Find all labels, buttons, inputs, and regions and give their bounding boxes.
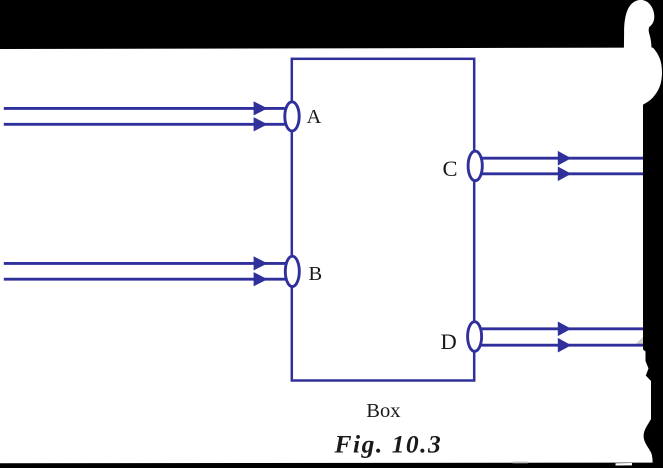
gray smudge above bottom bar bbox=[513, 462, 529, 464]
terminal D bbox=[468, 322, 482, 352]
terminal C bbox=[468, 151, 482, 181]
arrowhead A lower bbox=[254, 117, 268, 131]
box outline bbox=[292, 59, 474, 381]
right black scan strip bbox=[643, 46, 663, 463]
arrowhead D lower bbox=[558, 338, 571, 353]
arrowhead C lower bbox=[558, 167, 571, 182]
wire A lower bbox=[4, 123, 288, 126]
arrowhead A upper bbox=[254, 101, 268, 115]
wire C lower bbox=[478, 172, 643, 175]
wire A upper bbox=[4, 107, 288, 110]
svg-text:Box: Box bbox=[366, 400, 400, 422]
wire B upper bbox=[4, 262, 288, 265]
svg-text:C: C bbox=[443, 156, 458, 181]
gray scan wedge left of right strip bbox=[634, 337, 644, 347]
svg-text:Fig. 10.3: Fig. 10.3 bbox=[334, 430, 443, 459]
svg-text:A: A bbox=[307, 106, 322, 128]
wire D upper bbox=[478, 327, 643, 330]
page-curl white blob in top bar bbox=[624, 0, 654, 49]
wire B lower bbox=[4, 278, 288, 281]
wire D lower bbox=[478, 344, 643, 347]
bottom black scan bar bbox=[0, 463, 663, 468]
arrowhead C upper bbox=[558, 151, 571, 166]
wire C upper bbox=[478, 157, 643, 160]
arrowhead D upper bbox=[558, 322, 571, 337]
arrowhead B lower bbox=[254, 272, 268, 286]
terminal A bbox=[285, 102, 299, 131]
svg-text:B: B bbox=[309, 263, 323, 285]
arrowhead B upper bbox=[254, 256, 268, 270]
white notch in bottom bar bbox=[616, 463, 633, 466]
terminal B bbox=[285, 256, 299, 286]
top black scan bar bbox=[0, 0, 663, 49]
svg-text:D: D bbox=[441, 329, 457, 354]
